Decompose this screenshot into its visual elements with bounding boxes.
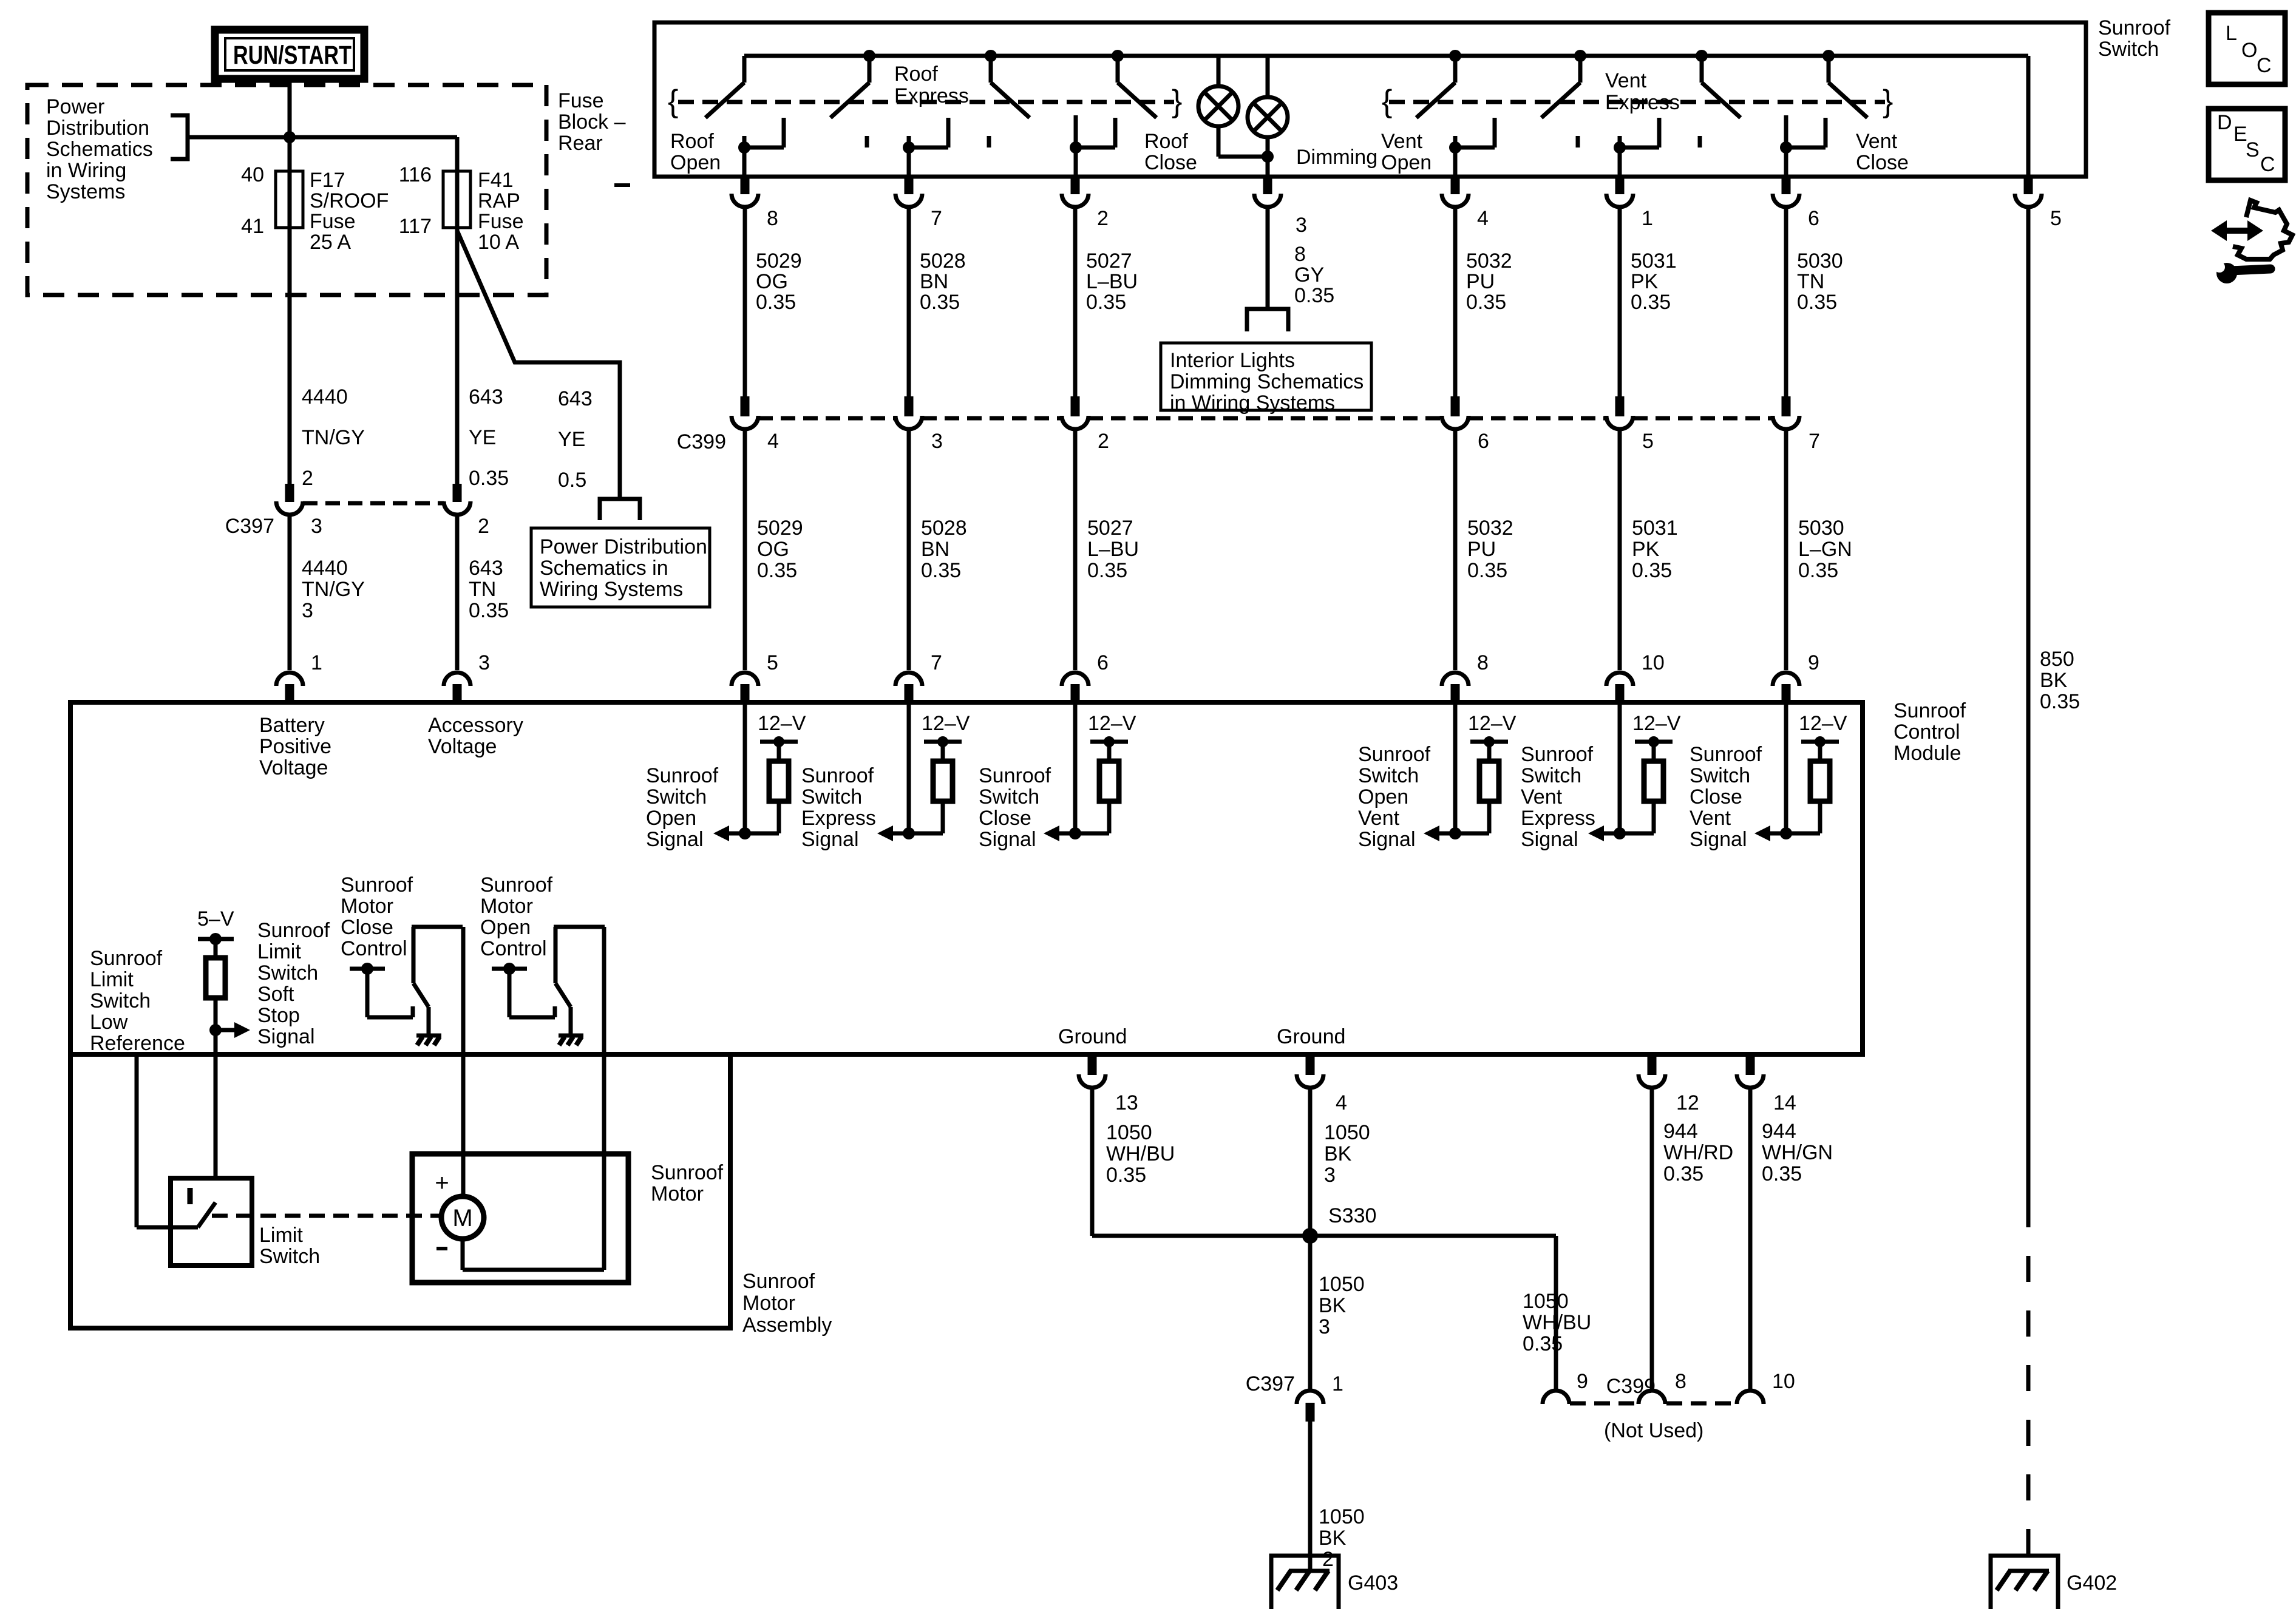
svg-text:Roof: Roof: [894, 63, 938, 86]
label Sunroof Limit Switch Low Reference: [90, 947, 185, 1055]
wire 5032 PU upper segment: [1453, 209, 1458, 396]
svg-text:Block –: Block –: [558, 110, 626, 134]
svg-text:116: 116: [399, 163, 432, 186]
wire label 643 TN 0.35: [469, 557, 509, 622]
off-page connector staple to power distribution: [600, 499, 640, 520]
connector at sunroof switch pin 7: [895, 177, 922, 207]
LOC legend box: [2209, 13, 2285, 84]
svg-text:BK: BK: [1319, 1294, 1347, 1317]
switch blade pivot x=1226: [705, 56, 744, 118]
svg-text:Sunroof: Sunroof: [1358, 743, 1431, 766]
svg-text:12–V: 12–V: [758, 712, 806, 735]
svg-text:Control: Control: [1894, 720, 1960, 744]
wire label 643 YE 0.5: [558, 387, 593, 492]
svg-text:Motor: Motor: [742, 1292, 795, 1315]
svg-text:RAP: RAP: [478, 189, 520, 212]
reference box Interior Lights Dimming Schematics: [1161, 343, 1371, 415]
ground G403: [1271, 1556, 1339, 1609]
svg-text:Sunroof: Sunroof: [1521, 743, 1594, 766]
connector at sunroof switch pin 2: [1062, 177, 1089, 207]
module pin 14 connector: [1737, 1057, 1764, 1088]
wire 5030 L–GN lower segment: [1784, 431, 1788, 670]
label Sunroof Switch Close Vent Signal: [1690, 743, 1762, 851]
switch contact / output Vent Close: [1780, 115, 1826, 177]
svg-text:3: 3: [302, 599, 313, 622]
svg-text:Systems: Systems: [46, 180, 125, 203]
wire 5031 PK upper segment: [1618, 209, 1622, 396]
ground (internal): [416, 1036, 441, 1045]
ground (internal): [559, 1036, 583, 1045]
svg-text:Stop: Stop: [257, 1004, 300, 1027]
connector C399 pin 7: [1773, 396, 1799, 429]
svg-text:0.35: 0.35: [1797, 291, 1837, 314]
svg-text:10 A: 10 A: [478, 231, 519, 254]
reference box Power Distribution Schematics in Wiring Systems: [531, 528, 710, 607]
svg-text:Power Distribution: Power Distribution: [540, 535, 707, 558]
svg-text:Reference: Reference: [90, 1032, 185, 1055]
svg-text:0.35: 0.35: [1762, 1162, 1802, 1185]
C399 bottom dashed harness: [1570, 1402, 1736, 1406]
svg-text:0.35: 0.35: [1632, 559, 1672, 582]
svg-text:Control: Control: [480, 937, 547, 960]
svg-text:Motor: Motor: [341, 895, 393, 918]
bracket to power distribution reference: [171, 115, 188, 159]
svg-text:PK: PK: [1632, 538, 1660, 561]
fuse F41 RAP 10A: [443, 171, 470, 228]
svg-text:Rear: Rear: [558, 132, 603, 155]
label Sunroof Switch Vent Express Signal: [1521, 743, 1595, 851]
wire label 1050 WH/BU 0.35: [1106, 1121, 1175, 1187]
svg-text:Vent: Vent: [1521, 785, 1563, 808]
svg-text:RUN/START: RUN/START: [233, 41, 352, 70]
label Sunroof Limit Switch Soft Stop Signal: [257, 919, 330, 1048]
svg-text:643: 643: [469, 557, 503, 580]
svg-text:3: 3: [1324, 1164, 1336, 1187]
svg-text:Close: Close: [979, 807, 1031, 830]
wire label 5030 TN 0.35: [1797, 249, 1843, 314]
connector C397 pin 1: [1297, 1391, 1323, 1422]
svg-text:Switch: Switch: [257, 961, 318, 985]
svg-text:0.35: 0.35: [2040, 690, 2080, 713]
svg-text:GY: GY: [1294, 263, 1324, 286]
module pin 7 connector: [895, 673, 922, 702]
wire 850 BK 0.35 solid: [2026, 209, 2031, 1201]
svg-text:0.35: 0.35: [1798, 559, 1838, 582]
svg-text:8: 8: [767, 207, 778, 230]
svg-text:C397: C397: [225, 515, 274, 538]
label Roof Close: [1144, 130, 1197, 174]
wire S330 to C399 pin 9: [1310, 1236, 1556, 1389]
svg-text:D: D: [2217, 111, 2232, 134]
svg-text:BN: BN: [920, 270, 948, 293]
tick mark left of switch box: [614, 183, 630, 187]
svg-text:Low: Low: [90, 1011, 128, 1034]
svg-text:4: 4: [767, 430, 779, 453]
C397 harness dashed line: [303, 501, 444, 506]
svg-text:Signal: Signal: [1521, 828, 1578, 851]
off-page connector staple to dimming schematics: [1247, 309, 1288, 331]
switch contact / output Vent Open: [1449, 118, 1495, 177]
svg-text:Signal: Signal: [646, 828, 704, 851]
svg-text:5032: 5032: [1466, 249, 1512, 273]
svg-text:Fuse: Fuse: [310, 210, 356, 233]
svg-text:+: +: [435, 1170, 449, 1196]
svg-text:Control: Control: [341, 937, 407, 960]
svg-text:4440: 4440: [302, 385, 348, 408]
svg-text:944: 944: [1762, 1120, 1796, 1143]
svg-text:Switch: Switch: [1521, 764, 1581, 787]
svg-text:Switch: Switch: [646, 785, 707, 808]
svg-text:G402: G402: [2067, 1571, 2117, 1595]
svg-text:Switch: Switch: [90, 989, 151, 1012]
svg-text:1: 1: [1332, 1372, 1343, 1395]
wire label 5028 BN 0.35: [921, 517, 967, 582]
svg-text:4: 4: [1477, 207, 1489, 230]
module pin 3 connector: [444, 673, 470, 702]
F41 terminal labels 116 / 117: [399, 163, 432, 238]
svg-text:6: 6: [1808, 207, 1819, 230]
svg-text:5028: 5028: [920, 249, 966, 273]
svg-text:Ground: Ground: [1058, 1025, 1127, 1048]
label Power Distribution Schematics in Wiring Systems: [46, 95, 153, 203]
svg-text:F17: F17: [310, 169, 345, 192]
svg-text:7: 7: [1809, 430, 1820, 453]
svg-text:8: 8: [1294, 243, 1306, 266]
svg-text:BK: BK: [1319, 1527, 1347, 1550]
svg-text:0.35: 0.35: [469, 599, 509, 622]
svg-text:12–V: 12–V: [922, 712, 970, 735]
wire 8 GY 0.35: [1266, 209, 1270, 309]
svg-text:Sunroof: Sunroof: [1690, 743, 1762, 766]
connector at sunroof switch pin 8: [732, 177, 758, 207]
svg-text:5030: 5030: [1798, 517, 1844, 540]
switch contact / output Vent Express: [1614, 118, 1659, 177]
wire 5028 BN lower segment: [907, 431, 911, 670]
svg-text:5031: 5031: [1632, 517, 1678, 540]
wire label 8 GY 0.35: [1294, 243, 1334, 307]
svg-text:1: 1: [311, 651, 322, 674]
svg-text:8: 8: [1477, 651, 1489, 674]
svg-text:Vent: Vent: [1381, 130, 1423, 153]
wire pin 14 to C399 pin 10: [1748, 1090, 1753, 1389]
svg-text:0.35: 0.35: [920, 291, 960, 314]
svg-text:25 A: 25 A: [310, 231, 351, 254]
wire label 5031 PK 0.35: [1632, 517, 1678, 582]
module pin 9 connector: [1773, 673, 1799, 702]
DESC legend box: [2209, 109, 2285, 180]
rest contact tick: [865, 136, 869, 147]
svg-text:WH/BU: WH/BU: [1106, 1142, 1175, 1165]
sunroof control module box: [70, 702, 1863, 1054]
svg-text:L–GN: L–GN: [1798, 538, 1852, 561]
svg-text:41: 41: [241, 215, 264, 238]
svg-text:Voltage: Voltage: [259, 756, 328, 779]
wire pin 12 to C399 pin 8: [1650, 1090, 1654, 1389]
wire C397-2 to module pin 3: [455, 517, 460, 670]
wire C397-3 to module pin 1: [288, 517, 292, 670]
sunroof motor box: [412, 1154, 628, 1283]
svg-text:WH/BU: WH/BU: [1523, 1311, 1591, 1334]
svg-text:Wiring Systems: Wiring Systems: [540, 578, 683, 601]
motor - terminal: [436, 1247, 447, 1250]
svg-text:0.5: 0.5: [558, 469, 586, 492]
svg-text:944: 944: [1663, 1120, 1698, 1143]
module pin 10 connector: [1606, 673, 1633, 702]
svg-text:L: L: [2226, 22, 2237, 45]
wire label 5027 L–BU 0.35: [1086, 249, 1138, 314]
svg-text:Open: Open: [1358, 785, 1408, 808]
switch blade pivot x=3012: [1822, 50, 1867, 118]
svg-text:Open: Open: [480, 916, 531, 939]
C399 dashed harness line: [758, 416, 1773, 421]
label Vent Close: [1856, 130, 1909, 174]
connector at sunroof switch pin 6: [1773, 177, 1799, 207]
rest contact tick: [987, 136, 991, 147]
wire label 1050 BK 3: [1324, 1121, 1370, 1187]
12-V pull-up chain for column x=2397: [1424, 702, 1508, 841]
switch blade pivot x=2603: [1541, 50, 1586, 118]
relay contact (supply side): [350, 963, 413, 1017]
wire 5029 OG lower segment: [743, 431, 747, 670]
label Vent Open: [1381, 130, 1432, 174]
svg-text:BN: BN: [921, 538, 949, 561]
svg-text:12–V: 12–V: [1632, 712, 1681, 735]
splice S330: [1302, 1228, 1318, 1244]
label Battery Positive Voltage: [259, 714, 331, 779]
svg-text:OG: OG: [757, 538, 789, 561]
label Limit Switch: [259, 1224, 320, 1268]
svg-text:850: 850: [2040, 648, 2074, 671]
svg-text:Close: Close: [1690, 785, 1742, 808]
connector C397 pin 3: [276, 484, 303, 515]
svg-text:1050: 1050: [1523, 1290, 1569, 1313]
svg-text:9: 9: [1577, 1370, 1588, 1393]
svg-text:10: 10: [1772, 1370, 1795, 1393]
5-V supply: [197, 907, 234, 945]
svg-text:BK: BK: [2040, 669, 2068, 692]
wire label 643 YE 0.35: [469, 385, 509, 490]
module pin 8 connector: [1442, 673, 1469, 702]
connector at sunroof switch pin 5: [2015, 177, 2042, 207]
svg-text:0.35: 0.35: [1086, 291, 1126, 314]
svg-text:Signal: Signal: [979, 828, 1036, 851]
module pin 12 connector: [1639, 1057, 1665, 1088]
svg-text:PU: PU: [1467, 538, 1496, 561]
svg-text:Sunroof: Sunroof: [1894, 699, 1966, 722]
wire label 5027 L–BU 0.35: [1087, 517, 1139, 582]
switch blade pivot x=2803: [1696, 50, 1741, 118]
connector C399 pin 8 (bottom): [1639, 1391, 1665, 1404]
svg-text:C: C: [2260, 153, 2275, 176]
12-V pull-up chain for column x=2668: [1588, 702, 1673, 841]
svg-text:OG: OG: [756, 270, 788, 293]
svg-text:Interior Lights: Interior Lights: [1170, 349, 1295, 372]
svg-text:}: }: [1172, 84, 1182, 119]
svg-text:Vent: Vent: [1358, 807, 1400, 830]
svg-text:O: O: [2241, 39, 2257, 62]
svg-text:1050: 1050: [1106, 1121, 1152, 1144]
node soft stop signal junction: [209, 1024, 222, 1036]
svg-text:6: 6: [1097, 651, 1109, 674]
svg-text:12–V: 12–V: [1468, 712, 1517, 735]
svg-text:Assembly: Assembly: [742, 1314, 832, 1337]
switch blade pivot x=2397: [1416, 50, 1461, 118]
svg-text:5027: 5027: [1087, 517, 1133, 540]
svg-text:Dimming Schematics: Dimming Schematics: [1170, 370, 1364, 393]
wire label 1050 BK 3 (below S330): [1319, 1273, 1365, 1338]
svg-text:Sunroof: Sunroof: [646, 764, 719, 787]
lamp L1 (dimming illumination): [1198, 56, 1268, 157]
wire label 5031 PK 0.35: [1631, 249, 1677, 314]
connector C399 pin 9 (bottom): [1543, 1391, 1569, 1404]
svg-text:Module: Module: [1894, 742, 1961, 765]
service icon: double arrow: [2211, 220, 2263, 241]
svg-text:1050: 1050: [1319, 1505, 1365, 1528]
svg-text:{: {: [668, 84, 678, 119]
svg-text:Open: Open: [1381, 151, 1432, 174]
svg-text:Fuse: Fuse: [478, 210, 524, 233]
module pin 5 connector: [732, 673, 758, 702]
motor M1: [441, 1196, 484, 1239]
svg-text:Switch: Switch: [979, 785, 1039, 808]
svg-text:5030: 5030: [1797, 249, 1843, 273]
svg-text:Sunroof: Sunroof: [801, 764, 874, 787]
svg-text:PU: PU: [1466, 270, 1495, 293]
svg-text:5032: 5032: [1467, 517, 1513, 540]
svg-text:2: 2: [478, 515, 489, 538]
F17 value label: [310, 169, 389, 254]
svg-text:Motor: Motor: [480, 895, 533, 918]
sunroof switch box: [654, 22, 2086, 177]
svg-text:Close: Close: [1144, 151, 1197, 174]
wire F41 branch down: [455, 137, 460, 484]
svg-text:S: S: [2246, 138, 2260, 161]
wire label 944 WH/GN 0.35: [1762, 1120, 1833, 1185]
svg-text:1050: 1050: [1319, 1273, 1365, 1296]
connector at sunroof switch pin 4: [1442, 177, 1469, 207]
label Roof Express: [894, 63, 969, 107]
svg-text:Accessory: Accessory: [428, 714, 523, 737]
svg-text:0.35: 0.35: [757, 559, 797, 582]
svg-text:Limit: Limit: [259, 1224, 303, 1247]
F41 value label: [478, 169, 524, 254]
fuse F17 S/ROOF 25A: [276, 171, 303, 228]
svg-text:14: 14: [1773, 1091, 1796, 1114]
svg-text:Close: Close: [1856, 151, 1909, 174]
wire 5027 L–BU upper segment: [1073, 209, 1078, 396]
svg-text:5028: 5028: [921, 517, 967, 540]
label Roof Open: [670, 130, 721, 174]
mechanical linkage dashed (roof): [678, 100, 1174, 104]
svg-text:3: 3: [1296, 214, 1307, 237]
svg-text:5031: 5031: [1631, 249, 1677, 273]
rest contact tick: [1698, 136, 1702, 147]
svg-text:S330: S330: [1328, 1204, 1376, 1227]
svg-text:Switch: Switch: [1358, 764, 1419, 787]
svg-text:5–V: 5–V: [197, 907, 234, 931]
svg-text:Motor: Motor: [651, 1182, 704, 1205]
svg-text:2: 2: [1097, 207, 1109, 230]
wire label 944 WH/RD 0.35: [1663, 1120, 1733, 1185]
fuse block dashed box (Fuse Block - Rear): [27, 85, 546, 295]
svg-text:Roof: Roof: [1144, 130, 1188, 153]
svg-text:YE: YE: [558, 428, 585, 451]
svg-text:Sunroof: Sunroof: [2098, 16, 2171, 39]
connector C399 pin 3: [895, 396, 922, 429]
svg-text:8: 8: [1675, 1370, 1686, 1393]
connector C399 pin 2: [1062, 396, 1089, 429]
wire label 5032 PU 0.35: [1467, 517, 1513, 582]
wire 5031 PK lower segment: [1618, 431, 1622, 670]
svg-text:(Not Used): (Not Used): [1604, 1419, 1703, 1442]
svg-text:PK: PK: [1631, 270, 1659, 293]
svg-text:Sunroof: Sunroof: [341, 873, 413, 897]
limit switch blade: [198, 1202, 216, 1227]
svg-text:13: 13: [1115, 1091, 1138, 1114]
svg-text:2: 2: [1322, 1548, 1334, 1571]
svg-text:F41: F41: [478, 169, 514, 192]
svg-text:Express: Express: [894, 84, 969, 107]
svg-text:Schematics in: Schematics in: [540, 557, 668, 580]
wire C397-1 to G403: [1308, 1422, 1313, 1571]
svg-text:3: 3: [1319, 1315, 1330, 1338]
svg-text:0.35: 0.35: [1523, 1332, 1563, 1355]
label Sunroof Switch: [2098, 16, 2171, 61]
mechanical link limit switch to motor (dashed): [212, 1214, 441, 1218]
svg-text:0.35: 0.35: [1467, 559, 1507, 582]
svg-text:Soft: Soft: [257, 983, 294, 1006]
relay blade to ground: [412, 927, 463, 1036]
label Sunroof Motor Open Control: [480, 873, 553, 960]
svg-text:BK: BK: [1324, 1142, 1352, 1165]
svg-text:Limit: Limit: [257, 940, 301, 963]
svg-text:Battery: Battery: [259, 714, 325, 737]
svg-text:1050: 1050: [1324, 1121, 1370, 1144]
wire 5032 PU lower segment: [1453, 431, 1458, 670]
label Accessory Voltage: [428, 714, 523, 758]
svg-text:G403: G403: [1348, 1571, 1398, 1595]
svg-text:Sunroof: Sunroof: [742, 1270, 815, 1293]
wire label 1050 WH/BU 0.35 (branch): [1523, 1290, 1591, 1355]
svg-text:{: {: [1382, 84, 1392, 119]
svg-text:0.35: 0.35: [469, 467, 509, 490]
wire label 5029 OG 0.35: [757, 517, 803, 582]
svg-text:Ground: Ground: [1277, 1025, 1345, 1048]
svg-text:1: 1: [1642, 207, 1653, 230]
ground G402: [1991, 1556, 2058, 1609]
svg-text:Sunroof: Sunroof: [480, 873, 553, 897]
svg-text:12–V: 12–V: [1799, 712, 1847, 735]
svg-text:2: 2: [1098, 430, 1109, 453]
svg-text:Voltage: Voltage: [428, 735, 497, 758]
wire pin13 to S330: [1092, 1090, 1310, 1236]
svg-text:Switch: Switch: [259, 1245, 320, 1268]
svg-text:M: M: [452, 1205, 472, 1232]
svg-text:Switch: Switch: [2098, 38, 2159, 61]
label Sunroof Motor: [651, 1161, 724, 1205]
svg-text:Limit: Limit: [90, 968, 134, 991]
label Sunroof Control Module: [1894, 699, 1966, 765]
svg-text:0.35: 0.35: [1294, 284, 1334, 307]
label Sunroof Switch Close Signal: [979, 764, 1051, 851]
svg-text:0.35: 0.35: [1087, 559, 1127, 582]
svg-text:Power: Power: [46, 95, 104, 118]
svg-text:Signal: Signal: [801, 828, 859, 851]
svg-text:Vent: Vent: [1690, 807, 1731, 830]
wire bracket to F41 branch: [188, 135, 457, 140]
module pin 4 connector: [1297, 1057, 1323, 1088]
svg-text:Signal: Signal: [1690, 828, 1747, 851]
